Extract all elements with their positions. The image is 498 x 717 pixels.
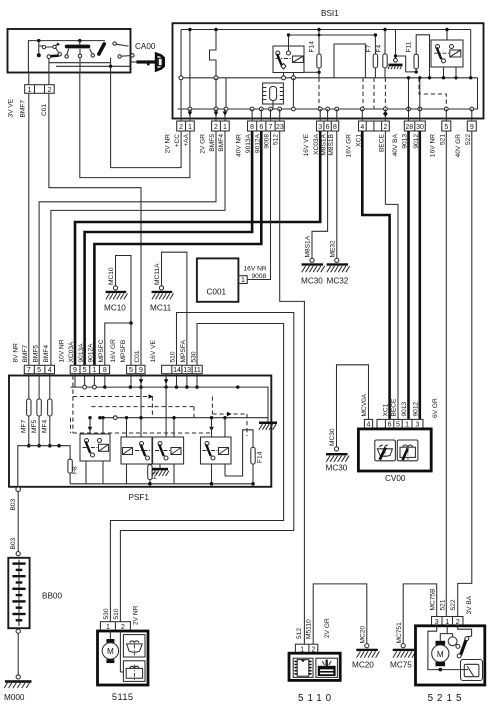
- svg-text:510: 510: [113, 608, 120, 619]
- PSF relay K2: [121, 387, 152, 484]
- junction MPSFB MPSFC: [129, 321, 133, 325]
- svg-text:MC75B: MC75B: [430, 588, 437, 611]
- CV00 connector cell 4: [364, 419, 372, 428]
- fuse F7: [366, 33, 378, 109]
- CA00 switch contact set 3: [96, 42, 134, 67]
- 5115 wiper icon: [123, 635, 145, 657]
- svg-text:MF7: MF7: [21, 419, 28, 433]
- svg-text:2: 2: [47, 87, 51, 94]
- wire B03: [17, 492, 19, 552]
- fuse F14 psf: [225, 430, 264, 486]
- 5215 motor M: [432, 641, 449, 666]
- wire MPSFA to ground MC11: [162, 252, 187, 365]
- svg-text:B03: B03: [10, 537, 17, 549]
- svg-text:F7: F7: [366, 44, 373, 52]
- svg-text:2: 2: [179, 124, 183, 131]
- svg-text:4: 4: [48, 367, 52, 374]
- wire XC03A: [75, 131, 320, 365]
- CA00 internal bottom wires: [49, 63, 131, 73]
- svg-text:2V GR: 2V GR: [324, 618, 331, 638]
- svg-text:MC30: MC30: [329, 428, 336, 446]
- svg-text:5: 5: [396, 422, 400, 429]
- wire BECE: [385, 131, 398, 419]
- bus junction circles: [188, 107, 474, 111]
- wire M5110: [313, 584, 367, 644]
- svg-text:9012A: 9012A: [88, 343, 95, 363]
- svg-text:CA00: CA00: [135, 42, 156, 51]
- PSF pins cells _ 14 13 11: [162, 365, 203, 374]
- wire MPSFC: [105, 323, 131, 365]
- svg-text:M000: M000: [4, 693, 25, 702]
- CA00 switch contact set 1: [37, 41, 62, 63]
- svg-text:MC10: MC10: [108, 267, 115, 285]
- svg-text:ME32: ME32: [330, 240, 337, 258]
- svg-text:BMF5: BMF5: [32, 345, 39, 363]
- svg-text:5115: 5115: [112, 692, 134, 702]
- svg-text:2V NR: 2V NR: [165, 134, 172, 154]
- battery BB00: [8, 558, 62, 628]
- wire MPSFB to ground MC10: [116, 256, 132, 366]
- BSI1 internal top rail: [181, 29, 471, 31]
- 5215 switch: [448, 637, 469, 658]
- wire M8S1A: [312, 131, 328, 258]
- svg-text:7: 7: [269, 124, 273, 131]
- svg-text:16V NR: 16V NR: [244, 266, 267, 273]
- wire MC75B: [403, 584, 437, 644]
- battery lower connector: [16, 629, 20, 633]
- PSF internal ground top right: [259, 387, 277, 430]
- wire 9012: [418, 131, 421, 419]
- svg-text:6: 6: [388, 422, 392, 429]
- svg-text:MCV0A: MCV0A: [361, 393, 368, 416]
- wire to M000: [17, 633, 19, 675]
- 5215 connector pins 3 1 2: [432, 617, 464, 627]
- wire C01: [49, 93, 141, 365]
- svg-text:3: 3: [318, 124, 322, 131]
- BSI1 box: [173, 23, 484, 118]
- svg-text:PSF1: PSF1: [129, 493, 150, 502]
- svg-text:9008: 9008: [264, 134, 271, 149]
- svg-text:14: 14: [173, 367, 181, 374]
- svg-text:BMF4: BMF4: [218, 134, 225, 152]
- PSF1 box: [9, 376, 271, 487]
- svg-text:8: 8: [333, 124, 337, 131]
- svg-text:XC1: XC1: [382, 403, 389, 416]
- svg-text:M: M: [437, 650, 444, 659]
- svg-text:MC10: MC10: [104, 304, 126, 313]
- PSF pins cells 5 9: [127, 365, 145, 374]
- CV00 wiper icon left: [375, 440, 396, 461]
- svg-text:8: 8: [103, 367, 107, 374]
- svg-text:F8: F8: [72, 466, 79, 474]
- svg-text:3: 3: [416, 422, 420, 429]
- svg-text:512: 512: [296, 628, 303, 639]
- PSF internal arrows: [88, 379, 214, 431]
- svg-text:MC11: MC11: [150, 304, 172, 313]
- PSF relay K4: [201, 418, 232, 484]
- BSI pin stubs to connector cells: [181, 109, 472, 121]
- wire +AA: [80, 73, 190, 178]
- wire 510: [120, 313, 293, 622]
- PSF pin stubs into box: [29, 374, 197, 399]
- svg-text:8: 8: [250, 124, 254, 131]
- 5115 washer icon: [123, 661, 145, 682]
- svg-text:2V NR: 2V NR: [133, 605, 140, 625]
- svg-text:1: 1: [28, 87, 32, 94]
- svg-text:MC11A: MC11A: [154, 263, 161, 285]
- ground MC10: [104, 286, 128, 313]
- fuse MF7: [21, 399, 32, 448]
- fuse MF5: [31, 399, 42, 448]
- connector C001: [197, 258, 247, 301]
- svg-text:MPSFC: MPSFC: [98, 339, 105, 362]
- svg-text:M5110: M5110: [305, 619, 312, 639]
- BSI1 rail1b: [289, 34, 376, 36]
- svg-text:6V GR: 6V GR: [432, 398, 439, 418]
- svg-text:MC32: MC32: [327, 277, 349, 286]
- svg-text:6: 6: [259, 124, 263, 131]
- svg-text:M8S1B: M8S1B: [328, 133, 335, 155]
- svg-text:522: 522: [465, 134, 472, 145]
- fuse F14 (BSI): [304, 28, 321, 109]
- svg-text:BB00: BB00: [42, 592, 62, 601]
- svg-text:16V NR: 16V NR: [429, 134, 436, 157]
- fuse F4: [375, 28, 387, 109]
- PSF bottom internal bus: [70, 482, 253, 486]
- svg-text:F14: F14: [309, 41, 316, 53]
- CA00 switch contact set 2: [65, 41, 95, 73]
- PSF dashed links: [71, 376, 248, 437]
- BSI connector cell pin 5: [442, 121, 451, 131]
- svg-text:MPSFB: MPSFB: [120, 339, 127, 362]
- svg-text:5: 5: [129, 367, 133, 374]
- BSI connector cell pin 9: [467, 121, 476, 131]
- wire 9013: [407, 131, 410, 419]
- PSF relay K3: [153, 387, 184, 484]
- svg-text:7: 7: [27, 367, 31, 374]
- CV00 wiper icon right: [397, 440, 418, 461]
- svg-text:1: 1: [241, 277, 245, 284]
- PSF internal ground middle: [152, 464, 169, 476]
- svg-text:C01: C01: [134, 350, 141, 362]
- svg-text:9013A: 9013A: [78, 343, 85, 363]
- 5115 connector pins 1 2: [100, 622, 130, 631]
- BSI1 internal vertical BMF4: [225, 78, 227, 109]
- svg-text:5: 5: [83, 367, 87, 374]
- links mid rail to bus for 9013 9012: [407, 76, 422, 109]
- svg-text:16V VE: 16V VE: [150, 340, 157, 363]
- svg-text:CV00: CV00: [385, 474, 406, 483]
- steering column switch CV00 box: [358, 429, 431, 471]
- svg-text:530: 530: [190, 351, 197, 362]
- svg-text:521: 521: [439, 599, 446, 610]
- svg-text:MPSFA: MPSFA: [180, 340, 187, 363]
- wire +CC: [111, 66, 182, 167]
- svg-text:M: M: [107, 647, 114, 656]
- svg-text:BECE: BECE: [391, 398, 398, 417]
- svg-text:530: 530: [103, 608, 110, 619]
- wire XC1: [362, 131, 389, 419]
- 5110 IC symbol: [293, 658, 313, 677]
- BSI1 relay U2: [431, 28, 463, 80]
- BSI connector cells group A pins 2 1: [177, 121, 195, 131]
- svg-text:C001: C001: [207, 288, 227, 297]
- PSF internal rail P1: [71, 385, 264, 389]
- fuse MF4: [42, 399, 53, 448]
- wire 9008: [247, 131, 270, 280]
- ground MC30 second: [326, 447, 350, 473]
- ignition switch CA00 box: [8, 29, 131, 73]
- wire M8S1B: [336, 131, 338, 258]
- svg-text:4: 4: [360, 124, 364, 131]
- PSF collector rail: [18, 444, 70, 487]
- fuse F11: [406, 35, 432, 80]
- svg-text:9: 9: [73, 367, 77, 374]
- CV00 connector cells _ 6 5 1 3: [377, 419, 423, 428]
- wire 530: [110, 324, 283, 622]
- ground M000: [4, 675, 32, 702]
- 5215 gauge: [461, 660, 483, 681]
- CA00 connector pins 1 2: [25, 73, 55, 94]
- svg-text:MF4: MF4: [42, 419, 49, 433]
- wire 512: [280, 131, 305, 644]
- svg-text:MC75: MC75: [390, 661, 412, 670]
- CA00 internal top rail: [28, 39, 105, 73]
- BSI1 staple wire: [334, 44, 365, 78]
- ground MC75: [390, 644, 416, 670]
- BSI connector cells group E pins 4 _ _ 2: [359, 121, 390, 131]
- svg-text:MF5: MF5: [31, 419, 38, 433]
- BSI1 internal vertical to +AA: [188, 28, 191, 109]
- svg-text:40V NR: 40V NR: [235, 134, 242, 157]
- wiper pump 5115 box: [98, 631, 149, 685]
- svg-text:C01: C01: [41, 104, 48, 116]
- BSI1 relay U1: [273, 33, 304, 109]
- svg-text:13: 13: [183, 367, 191, 374]
- svg-text:40V BA: 40V BA: [392, 133, 399, 156]
- svg-text:MC20: MC20: [352, 661, 374, 670]
- svg-text:BMF7: BMF7: [20, 100, 27, 118]
- svg-text:BMF4: BMF4: [43, 345, 50, 363]
- fuse F8: [68, 459, 79, 484]
- key symbol CA00: [131, 54, 164, 70]
- svg-text:BMF5: BMF5: [209, 134, 216, 152]
- svg-text:+AA: +AA: [183, 133, 190, 146]
- svg-text:BMF7: BMF7: [22, 345, 29, 363]
- svg-text:28: 28: [405, 124, 413, 131]
- svg-text:510: 510: [170, 351, 177, 362]
- svg-text:9013: 9013: [401, 401, 408, 416]
- wire 9012A: [94, 131, 261, 365]
- BSI1 internal step wire: [210, 28, 219, 109]
- PSF pins cells 7 5 4: [24, 365, 54, 374]
- 5115 motor M: [102, 631, 123, 672]
- svg-text:F11: F11: [406, 41, 413, 52]
- wire BMF5: [39, 131, 216, 365]
- svg-text:BECE: BECE: [378, 133, 385, 152]
- ground MC11: [150, 286, 174, 313]
- BSI1 internal ground: [388, 30, 418, 74]
- dashed link XC1: [362, 78, 364, 109]
- BSI1 internal mid rail: [181, 77, 478, 79]
- rear wiper motor 5215 box: [416, 626, 485, 685]
- 5110 connector pins 1 2: [295, 644, 317, 653]
- svg-text:M8S1A: M8S1A: [305, 235, 312, 257]
- svg-text:522: 522: [450, 599, 457, 610]
- svg-text:3V VE: 3V VE: [8, 98, 15, 117]
- svg-text:9012: 9012: [413, 401, 420, 416]
- ground MC32: [327, 258, 350, 285]
- svg-text:9: 9: [139, 367, 143, 374]
- ground MC30: [301, 258, 325, 285]
- PSF pins cells 9 5 1 8: [70, 365, 109, 374]
- svg-text:+CC: +CC: [174, 134, 181, 148]
- svg-text:MC20: MC20: [360, 626, 367, 644]
- wire BMF4: [51, 131, 225, 365]
- wire 521: [445, 131, 447, 617]
- BSI1 internal vertical to +CC: [179, 30, 183, 110]
- svg-text:521: 521: [439, 134, 446, 145]
- wire direction arrows below bus: [188, 111, 388, 117]
- svg-text:1: 1: [92, 367, 96, 374]
- svg-text:1: 1: [223, 124, 227, 131]
- wire MCV0A: [337, 365, 369, 447]
- svg-text:16V VE: 16V VE: [303, 133, 310, 156]
- svg-text:2: 2: [214, 124, 218, 131]
- svg-text:8V NR: 8V NR: [13, 343, 20, 363]
- BSI connector cells group C pins 8 6 7 23: [248, 121, 285, 131]
- svg-text:23: 23: [276, 124, 284, 131]
- svg-text:5215: 5215: [428, 693, 466, 704]
- fuse F13: [148, 464, 159, 484]
- svg-text:30: 30: [416, 124, 424, 131]
- svg-text:10V NR: 10V NR: [58, 339, 65, 362]
- svg-text:MC30: MC30: [326, 464, 348, 473]
- svg-text:9: 9: [470, 124, 474, 131]
- svg-text:MC751: MC751: [396, 622, 403, 644]
- svg-text:512: 512: [273, 134, 280, 145]
- svg-text:F4: F4: [375, 44, 382, 52]
- wire BMF7: [28, 93, 30, 365]
- svg-text:3V BA: 3V BA: [466, 595, 473, 614]
- svg-text:9008: 9008: [252, 273, 267, 280]
- BSI connector cells group B pins 2 1: [212, 121, 230, 131]
- svg-text:MC30: MC30: [301, 277, 323, 286]
- BSI connector cells group F pins 28 30: [404, 121, 425, 131]
- svg-text:1: 1: [405, 422, 409, 429]
- 5215 internal wiring: [428, 626, 472, 672]
- svg-text:4: 4: [367, 422, 371, 429]
- 5110 washer icon dark: [316, 658, 338, 677]
- svg-text:11: 11: [194, 367, 201, 374]
- connector B03 on PSF1: [16, 487, 21, 492]
- svg-text:5110: 5110: [298, 693, 335, 704]
- wiper relay 5110 box: [289, 653, 340, 680]
- BSI connector cells group D pins 3 6 8: [317, 121, 339, 131]
- svg-text:5: 5: [444, 124, 448, 131]
- PSF internal rail P2: [88, 416, 268, 420]
- PSF relay K1: [80, 418, 110, 484]
- svg-text:F14: F14: [257, 451, 264, 463]
- svg-text:40V GR: 40V GR: [455, 134, 462, 158]
- svg-text:2V GR: 2V GR: [200, 134, 207, 154]
- dashed link 521: [419, 78, 446, 109]
- battery connector circle: [16, 552, 20, 556]
- svg-text:2: 2: [383, 124, 387, 131]
- BSI1 internal bottom bus: [178, 78, 478, 109]
- svg-text:XC03A: XC03A: [68, 341, 75, 362]
- svg-text:1: 1: [188, 124, 192, 131]
- svg-text:M8S1A: M8S1A: [321, 133, 328, 155]
- svg-text:5: 5: [37, 367, 41, 374]
- svg-text:B03: B03: [10, 498, 17, 510]
- svg-text:16V GR: 16V GR: [110, 339, 117, 363]
- BSI1 rail1 right corner: [469, 30, 472, 80]
- wire 9013A: [85, 131, 253, 365]
- wire 522: [458, 131, 472, 617]
- BSI1 electronic module: [263, 83, 284, 109]
- svg-text:16V GR: 16V GR: [345, 134, 352, 158]
- svg-text:6: 6: [326, 124, 330, 131]
- ground MC20: [352, 644, 379, 670]
- svg-text:BSI1: BSI1: [321, 9, 339, 18]
